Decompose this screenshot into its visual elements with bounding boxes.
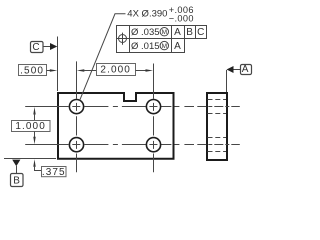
centerline right column vertical (153, 64, 155, 173)
side view hidden lines bottom hole (208, 138, 227, 152)
centerline bottom row horizontal (25, 144, 194, 146)
datum C (31, 42, 58, 54)
dimension 2.000 (77, 64, 153, 76)
svg-text:M: M (162, 43, 167, 50)
svg-text:Ø .035: Ø .035 (131, 27, 160, 38)
dimension .375 (33, 159, 66, 178)
svg-text:A: A (174, 27, 182, 38)
svg-text:−.000: −.000 (169, 13, 194, 23)
callout text 4X Ø.390 (127, 5, 194, 23)
leader for hole callout (80, 14, 126, 101)
FCF row2 datum A (174, 41, 182, 52)
centerline top row horizontal (25, 106, 194, 108)
extension line bottom edge (datum B / .375) (4, 158, 56, 160)
side view centerline top (197, 106, 240, 108)
side view outline (207, 93, 227, 160)
side view centerline bottom (197, 144, 240, 146)
svg-text:.375: .375 (42, 167, 66, 178)
hole bottom-left (69, 138, 83, 152)
svg-text:2.000: 2.000 (100, 65, 131, 76)
hole bottom-right (146, 138, 160, 152)
extension line left edge (datum C / .500) (57, 37, 59, 92)
hole top-left (69, 100, 83, 114)
svg-text:A: A (242, 64, 250, 75)
hole top-right (146, 100, 160, 114)
position symbol (116, 33, 128, 45)
FCF row2 tolerance Ø .015 M (131, 41, 169, 52)
side view hidden lines top hole (208, 100, 227, 114)
front view plate outline with notch (58, 93, 174, 159)
svg-text:C: C (32, 42, 40, 53)
FCF row1 tolerance Ø .035 M (131, 27, 169, 38)
svg-text:.500: .500 (20, 66, 44, 77)
svg-text:Ø .015: Ø .015 (131, 41, 160, 52)
datum B (11, 160, 24, 187)
svg-text:A: A (174, 41, 182, 52)
datum A (227, 64, 252, 92)
svg-text:C: C (197, 27, 205, 38)
centerline left column vertical (76, 61, 78, 172)
dimension .500 (19, 65, 58, 77)
svg-text:B: B (186, 27, 194, 38)
FCF row1 datums A B C (174, 27, 205, 38)
dimension 1.000 (12, 107, 51, 144)
svg-text:1.000: 1.000 (15, 121, 46, 132)
svg-text:B: B (13, 176, 21, 187)
svg-text:4X Ø.390: 4X Ø.390 (127, 8, 167, 19)
svg-text:M: M (162, 29, 167, 36)
feature control frame (117, 26, 207, 53)
